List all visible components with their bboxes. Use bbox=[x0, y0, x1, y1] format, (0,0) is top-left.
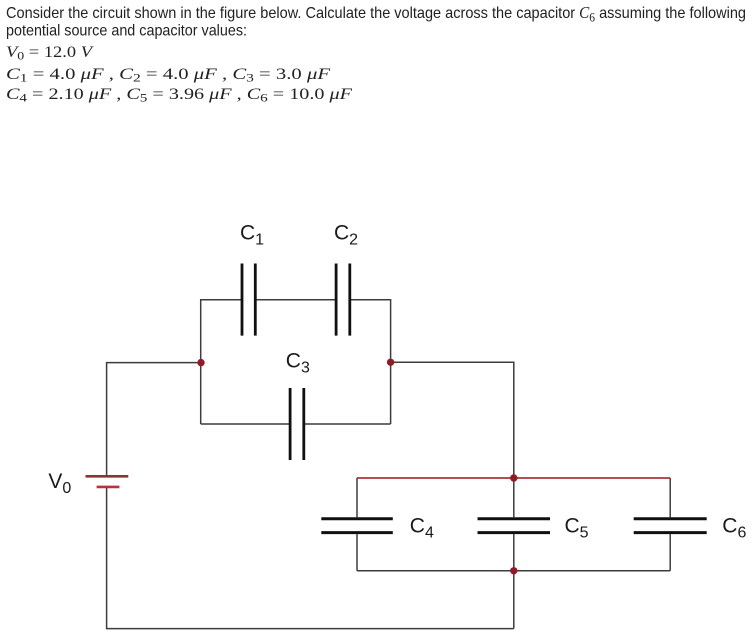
svg-text:C1 = 4.0 μF , C2 = 4.0 μF ,: C1 = 4.0 μF , C2 = 4.0 μF , C3 = 3.0 μF bbox=[6, 66, 330, 85]
svg-text:C1: C1 bbox=[240, 221, 264, 248]
svg-text:C2: C2 bbox=[334, 221, 358, 248]
svg-text:C4: C4 bbox=[410, 515, 434, 542]
svg-text:potential source and capacitor: potential source and capacitor values: bbox=[6, 22, 247, 39]
svg-text:C6: C6 bbox=[722, 515, 746, 542]
svg-text:Consider the circuit shown in: Consider the circuit shown in the figure… bbox=[6, 3, 746, 24]
svg-text:V0 = 12.0 V: V0 = 12.0 V bbox=[6, 44, 95, 63]
svg-text:C3: C3 bbox=[286, 350, 310, 377]
svg-text:V0: V0 bbox=[48, 470, 71, 497]
svg-text:C5: C5 bbox=[565, 515, 589, 542]
svg-text:C4 = 2.10 μF , C5 = 3.96 μF: C4 = 2.10 μF , C5 = 3.96 μF , C6 = 10.0 … bbox=[6, 86, 352, 105]
